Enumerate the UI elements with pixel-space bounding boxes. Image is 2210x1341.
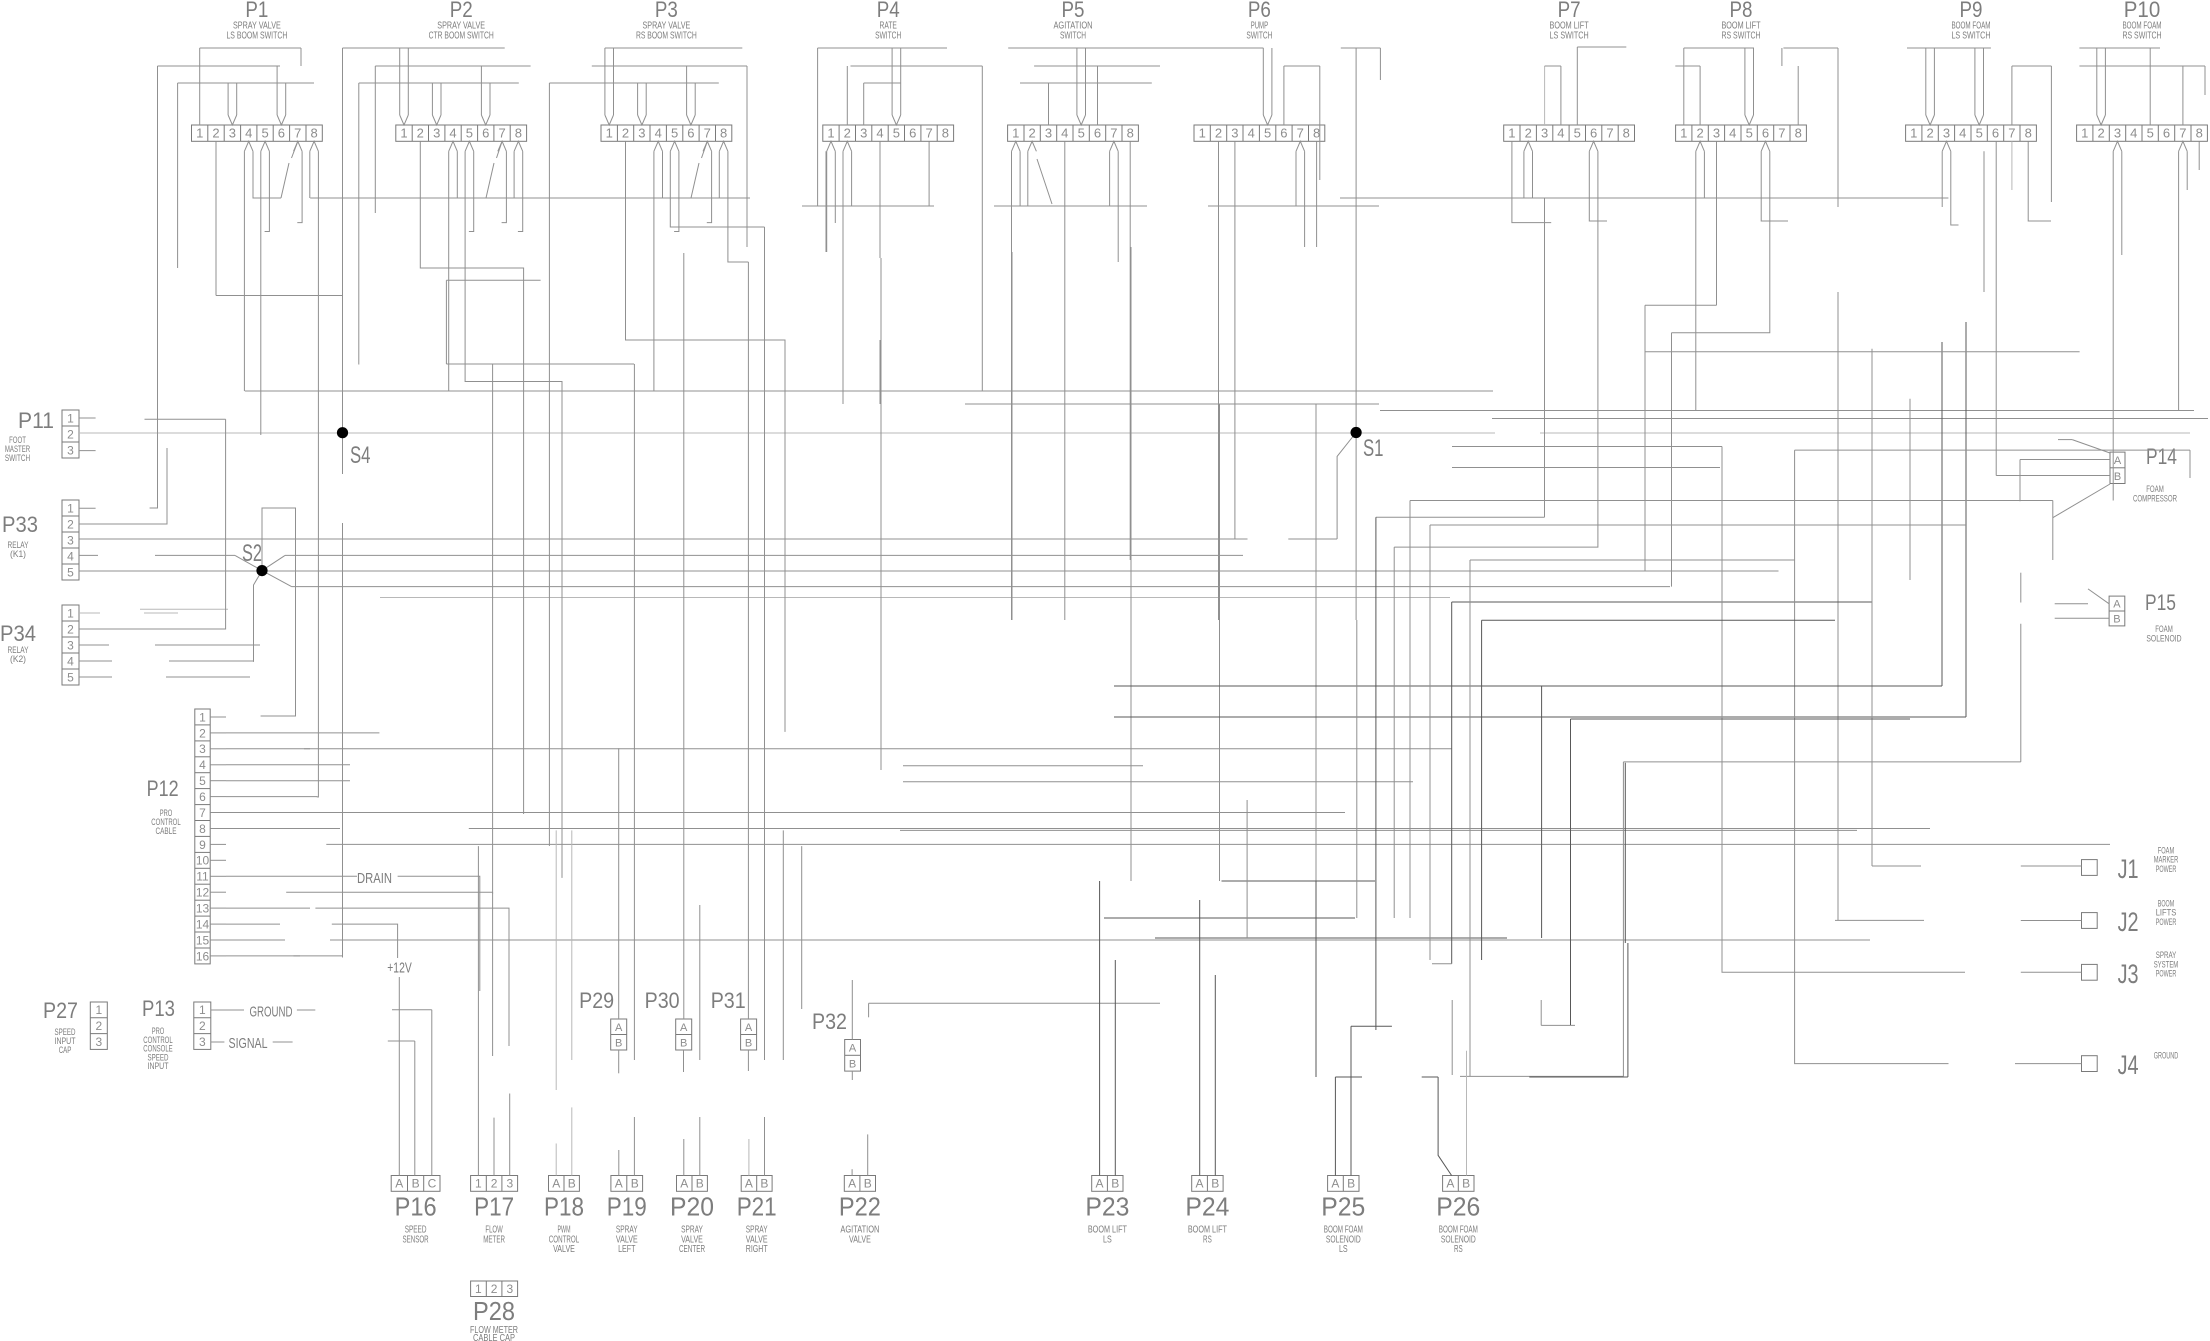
svg-text:CABLE: CABLE <box>156 826 177 837</box>
svg-text:A: A <box>1195 1177 1203 1191</box>
svg-text:A: A <box>848 1177 856 1191</box>
svg-text:4: 4 <box>199 758 206 772</box>
svg-text:16: 16 <box>196 949 210 963</box>
svg-text:LS BOOM SWITCH: LS BOOM SWITCH <box>226 29 287 41</box>
svg-text:RS: RS <box>1454 1243 1463 1255</box>
svg-text:P34: P34 <box>0 621 36 646</box>
svg-text:B: B <box>1111 1177 1119 1191</box>
svg-text:5: 5 <box>1746 126 1753 141</box>
svg-text:3: 3 <box>229 126 236 141</box>
svg-text:P14: P14 <box>2146 444 2177 469</box>
svg-text:12: 12 <box>196 886 210 900</box>
svg-text:7: 7 <box>704 126 711 141</box>
svg-text:4: 4 <box>67 654 74 668</box>
svg-text:5: 5 <box>1078 126 1085 141</box>
svg-text:2: 2 <box>1696 126 1703 141</box>
svg-text:LS SWITCH: LS SWITCH <box>1550 29 1589 41</box>
svg-text:SWITCH: SWITCH <box>1246 29 1272 41</box>
svg-text:A: A <box>680 1177 688 1191</box>
svg-text:A: A <box>1095 1177 1103 1191</box>
svg-text:4: 4 <box>876 126 883 141</box>
svg-text:2: 2 <box>67 622 74 636</box>
svg-text:3: 3 <box>67 533 74 547</box>
svg-text:B: B <box>568 1177 576 1191</box>
svg-text:POWER: POWER <box>2156 917 2177 927</box>
svg-text:J2: J2 <box>2118 907 2139 937</box>
svg-text:P12: P12 <box>147 776 179 801</box>
svg-text:P32: P32 <box>812 1009 847 1034</box>
svg-text:2: 2 <box>67 427 74 441</box>
svg-text:8: 8 <box>310 126 317 141</box>
svg-text:DRAIN: DRAIN <box>357 871 392 887</box>
svg-text:7: 7 <box>925 126 932 141</box>
svg-text:P23: P23 <box>1085 1192 1129 1222</box>
svg-text:(K2): (K2) <box>10 654 26 665</box>
svg-text:P17: P17 <box>474 1192 514 1222</box>
svg-text:LS: LS <box>1339 1243 1348 1255</box>
svg-text:1: 1 <box>199 1003 206 1017</box>
svg-text:8: 8 <box>515 126 522 141</box>
svg-text:3: 3 <box>67 443 74 457</box>
svg-text:RS BOOM SWITCH: RS BOOM SWITCH <box>636 29 697 41</box>
svg-text:1: 1 <box>95 1003 102 1017</box>
svg-text:COMPRESSOR: COMPRESSOR <box>2133 494 2177 505</box>
svg-text:SWITCH: SWITCH <box>5 453 30 464</box>
svg-text:3: 3 <box>638 126 645 141</box>
svg-text:GROUND: GROUND <box>2154 1051 2179 1061</box>
svg-text:6: 6 <box>1094 126 1101 141</box>
svg-text:2: 2 <box>417 126 424 141</box>
svg-text:2: 2 <box>2097 126 2104 141</box>
svg-text:7: 7 <box>2179 126 2186 141</box>
svg-text:SENSOR: SENSOR <box>403 1233 429 1245</box>
svg-text:4: 4 <box>1557 126 1564 141</box>
svg-text:6: 6 <box>909 126 916 141</box>
svg-text:CABLE CAP: CABLE CAP <box>473 1332 515 1341</box>
svg-text:4: 4 <box>67 549 74 563</box>
svg-text:B: B <box>849 1059 856 1071</box>
svg-text:7: 7 <box>1778 126 1785 141</box>
svg-text:J1: J1 <box>2118 854 2139 884</box>
svg-text:2: 2 <box>622 126 629 141</box>
svg-text:5: 5 <box>2147 126 2154 141</box>
svg-text:5: 5 <box>67 670 74 684</box>
svg-text:+12V: +12V <box>387 961 412 977</box>
svg-text:9: 9 <box>199 838 206 852</box>
svg-text:6: 6 <box>1762 126 1769 141</box>
svg-text:1: 1 <box>827 126 834 141</box>
svg-text:RS: RS <box>1203 1233 1212 1245</box>
svg-text:7: 7 <box>199 806 206 820</box>
svg-text:5: 5 <box>1574 126 1581 141</box>
svg-text:1: 1 <box>1680 126 1687 141</box>
svg-text:P15: P15 <box>2145 590 2176 615</box>
svg-text:B: B <box>2113 613 2120 625</box>
svg-text:3: 3 <box>1541 126 1548 141</box>
svg-text:A: A <box>615 1022 623 1034</box>
svg-text:1: 1 <box>196 126 203 141</box>
svg-text:B: B <box>412 1177 420 1191</box>
svg-text:2: 2 <box>1525 126 1532 141</box>
svg-text:LEFT: LEFT <box>618 1243 636 1255</box>
svg-text:B: B <box>1462 1177 1470 1191</box>
svg-text:2: 2 <box>95 1019 102 1033</box>
svg-text:2: 2 <box>491 1177 498 1191</box>
svg-text:1: 1 <box>67 501 74 515</box>
svg-text:4: 4 <box>245 126 252 141</box>
svg-text:3: 3 <box>506 1282 513 1296</box>
svg-text:J4: J4 <box>2118 1050 2139 1080</box>
svg-text:4: 4 <box>1061 126 1068 141</box>
svg-text:SOLENOID: SOLENOID <box>2146 634 2181 645</box>
svg-text:POWER: POWER <box>2156 969 2177 979</box>
svg-text:8: 8 <box>1795 126 1802 141</box>
svg-text:5: 5 <box>466 126 473 141</box>
svg-text:B: B <box>696 1177 704 1191</box>
svg-text:4: 4 <box>2130 126 2137 141</box>
svg-text:B: B <box>760 1177 768 1191</box>
svg-text:3: 3 <box>1713 126 1720 141</box>
svg-text:S1: S1 <box>1363 435 1384 462</box>
svg-text:8: 8 <box>2196 126 2203 141</box>
svg-text:B: B <box>1347 1177 1355 1191</box>
svg-text:3: 3 <box>433 126 440 141</box>
svg-text:B: B <box>1211 1177 1219 1191</box>
svg-text:LS: LS <box>1103 1233 1112 1245</box>
svg-text:14: 14 <box>196 917 210 931</box>
svg-text:1: 1 <box>475 1177 482 1191</box>
svg-text:CTR BOOM SWITCH: CTR BOOM SWITCH <box>429 29 494 41</box>
svg-text:B: B <box>615 1037 622 1049</box>
svg-text:3: 3 <box>1943 126 1950 141</box>
svg-text:3: 3 <box>67 638 74 652</box>
svg-text:1: 1 <box>606 126 613 141</box>
svg-text:P24: P24 <box>1185 1192 1229 1222</box>
svg-text:5: 5 <box>671 126 678 141</box>
svg-text:P25: P25 <box>1321 1192 1365 1222</box>
svg-text:4: 4 <box>1248 126 1255 141</box>
svg-text:P22: P22 <box>839 1192 881 1222</box>
svg-text:5: 5 <box>67 565 74 579</box>
svg-text:RS SWITCH: RS SWITCH <box>2122 29 2161 41</box>
svg-text:B: B <box>745 1037 752 1049</box>
svg-text:A: A <box>2114 455 2122 467</box>
svg-text:11: 11 <box>196 870 209 884</box>
svg-text:10: 10 <box>196 854 210 868</box>
svg-text:POWER: POWER <box>2156 864 2177 874</box>
svg-text:4: 4 <box>1729 126 1736 141</box>
svg-text:A: A <box>745 1177 753 1191</box>
svg-text:7: 7 <box>1110 126 1117 141</box>
svg-text:2: 2 <box>212 126 219 141</box>
svg-text:S2: S2 <box>242 540 262 567</box>
svg-text:4: 4 <box>449 126 456 141</box>
svg-text:5: 5 <box>199 774 206 788</box>
svg-text:A: A <box>1331 1177 1339 1191</box>
svg-text:2: 2 <box>1926 126 1933 141</box>
svg-text:7: 7 <box>2008 126 2015 141</box>
svg-text:A: A <box>395 1177 403 1191</box>
svg-text:A: A <box>2113 598 2121 610</box>
svg-text:A: A <box>615 1177 623 1191</box>
svg-text:P21: P21 <box>737 1192 777 1222</box>
svg-text:LS SWITCH: LS SWITCH <box>1951 29 1990 41</box>
svg-text:P28: P28 <box>473 1296 515 1326</box>
svg-text:P11: P11 <box>18 408 54 433</box>
svg-text:INPUT: INPUT <box>148 1061 169 1072</box>
svg-text:2: 2 <box>1215 126 1222 141</box>
svg-text:SWITCH: SWITCH <box>875 29 901 41</box>
svg-text:6: 6 <box>1992 126 1999 141</box>
svg-text:P18: P18 <box>544 1192 584 1222</box>
svg-text:7: 7 <box>1606 126 1613 141</box>
svg-text:B: B <box>2114 471 2121 483</box>
svg-text:3: 3 <box>95 1035 102 1049</box>
svg-text:2: 2 <box>199 1019 206 1033</box>
svg-text:B: B <box>680 1037 687 1049</box>
svg-text:8: 8 <box>1313 126 1320 141</box>
svg-text:1: 1 <box>67 411 74 425</box>
svg-text:2: 2 <box>1028 126 1035 141</box>
svg-text:VALVE: VALVE <box>849 1233 871 1245</box>
svg-text:3: 3 <box>199 742 206 756</box>
svg-text:SWITCH: SWITCH <box>1060 29 1086 41</box>
svg-text:6: 6 <box>687 126 694 141</box>
svg-text:B: B <box>864 1177 872 1191</box>
svg-text:3: 3 <box>1045 126 1052 141</box>
svg-text:P33: P33 <box>2 512 38 537</box>
svg-text:1: 1 <box>1508 126 1515 141</box>
svg-text:4: 4 <box>1959 126 1966 141</box>
svg-text:7: 7 <box>1297 126 1304 141</box>
svg-text:P29: P29 <box>579 988 614 1013</box>
svg-text:CAP: CAP <box>59 1045 72 1056</box>
svg-text:5: 5 <box>1264 126 1271 141</box>
svg-text:8: 8 <box>942 126 949 141</box>
svg-text:6: 6 <box>482 126 489 141</box>
svg-text:CENTER: CENTER <box>679 1243 705 1255</box>
svg-text:8: 8 <box>199 822 206 836</box>
svg-text:P27: P27 <box>43 998 78 1023</box>
svg-text:1: 1 <box>1199 126 1206 141</box>
svg-text:P19: P19 <box>607 1192 647 1222</box>
svg-text:5: 5 <box>1976 126 1983 141</box>
svg-text:15: 15 <box>196 933 210 947</box>
svg-text:A: A <box>849 1043 857 1055</box>
svg-text:5: 5 <box>893 126 900 141</box>
svg-text:6: 6 <box>1590 126 1597 141</box>
svg-text:A: A <box>680 1022 688 1034</box>
svg-text:6: 6 <box>1280 126 1287 141</box>
svg-text:7: 7 <box>498 126 505 141</box>
svg-text:3: 3 <box>506 1177 513 1191</box>
svg-text:8: 8 <box>1127 126 1134 141</box>
svg-text:P30: P30 <box>645 988 680 1013</box>
svg-text:8: 8 <box>2025 126 2032 141</box>
svg-text:P16: P16 <box>395 1192 437 1222</box>
svg-text:1: 1 <box>400 126 407 141</box>
svg-text:1: 1 <box>475 1282 482 1296</box>
svg-text:S4: S4 <box>350 442 371 469</box>
svg-text:1: 1 <box>1012 126 1019 141</box>
svg-text:2: 2 <box>199 726 206 740</box>
svg-text:2: 2 <box>491 1282 498 1296</box>
svg-text:GROUND: GROUND <box>250 1005 293 1021</box>
svg-text:RIGHT: RIGHT <box>746 1243 768 1255</box>
svg-text:6: 6 <box>199 790 206 804</box>
svg-text:5: 5 <box>261 126 268 141</box>
svg-text:SIGNAL: SIGNAL <box>229 1036 268 1052</box>
svg-text:2: 2 <box>844 126 851 141</box>
svg-text:P31: P31 <box>711 988 746 1013</box>
svg-text:J3: J3 <box>2118 959 2139 989</box>
svg-text:8: 8 <box>1623 126 1630 141</box>
svg-text:VALVE: VALVE <box>553 1243 575 1255</box>
svg-text:6: 6 <box>2163 126 2170 141</box>
svg-text:2: 2 <box>67 517 74 531</box>
svg-text:3: 3 <box>199 1035 206 1049</box>
svg-text:P13: P13 <box>142 996 175 1021</box>
svg-text:RS SWITCH: RS SWITCH <box>1721 29 1760 41</box>
svg-text:1: 1 <box>1910 126 1917 141</box>
svg-text:A: A <box>1446 1177 1454 1191</box>
svg-text:1: 1 <box>2081 126 2088 141</box>
svg-text:1: 1 <box>67 606 74 620</box>
svg-text:13: 13 <box>196 902 210 916</box>
svg-text:3: 3 <box>860 126 867 141</box>
svg-text:METER: METER <box>483 1233 505 1245</box>
svg-text:C: C <box>428 1177 437 1191</box>
svg-text:A: A <box>745 1022 753 1034</box>
svg-text:8: 8 <box>720 126 727 141</box>
svg-text:(K1): (K1) <box>10 549 26 560</box>
svg-text:3: 3 <box>2114 126 2121 141</box>
svg-text:B: B <box>631 1177 639 1191</box>
svg-text:6: 6 <box>278 126 285 141</box>
svg-text:3: 3 <box>1231 126 1238 141</box>
svg-text:7: 7 <box>294 126 301 141</box>
svg-text:P26: P26 <box>1436 1192 1480 1222</box>
svg-text:4: 4 <box>655 126 662 141</box>
svg-text:P20: P20 <box>670 1192 714 1222</box>
svg-text:1: 1 <box>199 710 206 724</box>
svg-text:A: A <box>552 1177 560 1191</box>
